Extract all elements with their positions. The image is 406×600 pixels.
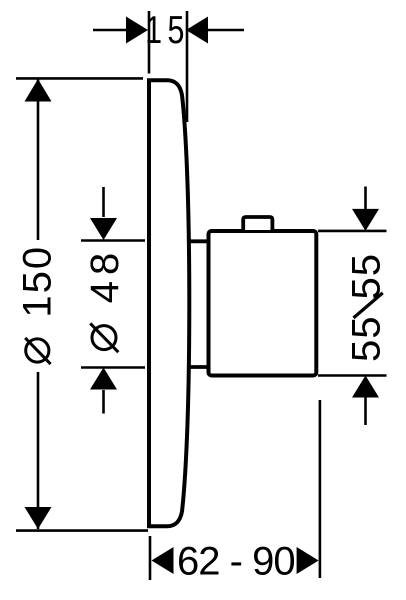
dim6290 left arrowhead xyxy=(152,547,174,574)
dia48 upper stub xyxy=(102,187,105,217)
dim5555 upper stub xyxy=(364,187,367,210)
handle knob body xyxy=(209,231,317,376)
dia150 dimension line lower xyxy=(37,372,40,529)
dim5555 bottom arrowhead xyxy=(352,376,379,398)
dim15 right arrowhead xyxy=(186,17,208,44)
label dia 48 diameter symbol circle xyxy=(92,326,116,350)
svg-text:55: 55 xyxy=(345,315,389,362)
dia150 bottom extension line xyxy=(16,529,148,532)
label 55/55 slash xyxy=(354,293,383,318)
dia48 bottom extension line xyxy=(81,366,145,369)
dia48 lower stub xyxy=(102,390,105,414)
dim15 left arrowhead xyxy=(126,17,148,44)
dia150 top arrowhead xyxy=(25,79,52,102)
dia150 top extension line xyxy=(16,77,143,80)
svg-text:55: 55 xyxy=(345,253,389,300)
dim15 left leader line xyxy=(93,29,127,32)
svg-text:62 - 90: 62 - 90 xyxy=(177,540,295,584)
dim15 right extension line xyxy=(186,11,189,122)
svg-text:48: 48 xyxy=(83,247,127,304)
valve sleeve top edge xyxy=(187,239,209,243)
dim5555 top extension line xyxy=(318,230,387,233)
escutcheon plate profile xyxy=(149,80,189,526)
dia150 bottom arrowhead xyxy=(25,507,52,529)
label dia 48 diameter symbol slash xyxy=(90,323,118,352)
dia48 top extension line xyxy=(81,239,145,242)
dia150 dimension line upper xyxy=(37,79,40,240)
label dia 150 diameter symbol circle xyxy=(26,339,49,362)
dim5555 bottom extension line xyxy=(318,374,387,377)
svg-text:15: 15 xyxy=(145,8,190,51)
label dia 150 diameter symbol slash xyxy=(25,338,50,364)
dia48 top arrowhead xyxy=(90,218,117,240)
dim5555 top arrowhead xyxy=(352,209,379,231)
dim15 left extension line xyxy=(148,11,151,74)
dim6290 right extension line xyxy=(319,400,322,578)
valve sleeve bottom edge xyxy=(187,365,209,369)
dim5555 lower stub xyxy=(364,398,367,426)
dia48 bottom arrowhead xyxy=(90,368,117,390)
knob top button xyxy=(243,217,272,230)
dim6290 right arrowhead xyxy=(297,547,319,574)
dim6290 left extension line xyxy=(149,536,152,580)
svg-text:150: 150 xyxy=(16,245,60,318)
dim15 right leader line xyxy=(207,29,244,32)
